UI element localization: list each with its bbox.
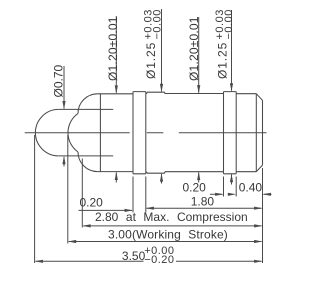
dim line 3.00 <box>69 241 262 243</box>
svg-text:3.00(Working Stroke): 3.00(Working Stroke) <box>108 227 228 241</box>
arrow 0.40 left edge right-pointing at 236.2 <box>228 193 236 196</box>
dim line 2.80 <box>83 225 261 227</box>
collar C1 <box>133 92 146 174</box>
svg-text:Ø1.25: Ø1.25 <box>144 42 158 79</box>
bottom arrow tails <box>63 157 65 167</box>
extension line 3.00 left <box>67 135 69 244</box>
svg-text:3.50: 3.50 <box>122 249 146 263</box>
plunger body edge <box>99 94 101 172</box>
dim line 1.80 <box>147 207 262 209</box>
plunger body top line <box>98 93 133 95</box>
flare corner arc bottom <box>78 152 98 172</box>
svg-text:Ø0.70: Ø0.70 <box>52 64 66 97</box>
extension line right face <box>262 168 264 263</box>
tip top line <box>59 108 113 110</box>
extension line 3.50 left <box>34 135 36 263</box>
svg-text:Ø1.20±0.01: Ø1.20±0.01 <box>187 16 201 81</box>
arrows 3.00 <box>68 240 76 243</box>
waist arc (flare silhouette) <box>68 113 78 152</box>
arrows for d0.70 <box>62 101 65 109</box>
extension lines 0.20 first <box>133 177 146 213</box>
arrows for d1.20 second <box>197 85 200 93</box>
tail chamfer edge <box>255 94 257 172</box>
leader d0.70 <box>63 66 65 109</box>
plunger tip dome <box>35 109 58 156</box>
arrow 0.20#2 right-pointing at 223.5 <box>215 193 223 196</box>
leader d1.25 second <box>231 10 233 91</box>
arrows for d1.20 first <box>115 85 118 93</box>
extension lines 0.20 second <box>224 177 237 197</box>
svg-text:0.20: 0.20 <box>80 196 104 210</box>
notch between collar and rim <box>146 93 147 172</box>
dim line 0.20 second row A <box>210 193 223 195</box>
tail chamfer bottom <box>256 165 262 172</box>
extension line 2.80 left <box>81 159 83 228</box>
tail right face <box>262 100 264 165</box>
leader d1.20 first <box>115 16 117 93</box>
dim line 3.50 <box>36 260 262 262</box>
svg-text:0.20: 0.20 <box>183 181 207 195</box>
svg-text:−0.00: −0.00 <box>223 9 235 39</box>
dim line 0.20 first row B <box>79 209 133 211</box>
barrel rim <box>147 92 165 173</box>
collar C2 <box>224 92 237 174</box>
svg-text:−0.00: −0.00 <box>152 9 164 39</box>
barrel top line <box>165 93 224 95</box>
arrows for d1.25 second <box>230 83 233 91</box>
flare corner arc top <box>78 94 98 114</box>
arrow 0.20#1 right-pointing at 133 <box>125 209 133 212</box>
arrows 1.80 <box>146 207 154 210</box>
arrows 3.50 <box>35 260 43 263</box>
leader d1.25 first <box>161 9 163 91</box>
centerline <box>25 132 267 134</box>
tail chamfer top <box>256 94 262 101</box>
plunger body bottom line <box>98 171 133 173</box>
leader d1.20 second <box>198 17 200 93</box>
arrows 2.80 <box>82 224 90 227</box>
arrow 0.40 right left-pointing at 262.5 <box>263 193 271 196</box>
svg-text:Ø1.25: Ø1.25 <box>215 42 229 79</box>
arrows for d1.25 first <box>160 84 163 92</box>
svg-text:Ø1.20±0.01: Ø1.20±0.01 <box>106 16 120 81</box>
svg-text:2.80 at Max. Compression: 2.80 at Max. Compression <box>95 210 248 224</box>
tip bottom line <box>59 155 113 157</box>
svg-text:0.40: 0.40 <box>239 181 263 195</box>
barrel bottom line <box>165 171 224 173</box>
tail cap <box>236 94 256 172</box>
dim tail 0.40 right <box>264 193 272 195</box>
svg-text:1.80: 1.80 <box>191 194 215 208</box>
svg-text:−0.20: −0.20 <box>144 254 174 266</box>
